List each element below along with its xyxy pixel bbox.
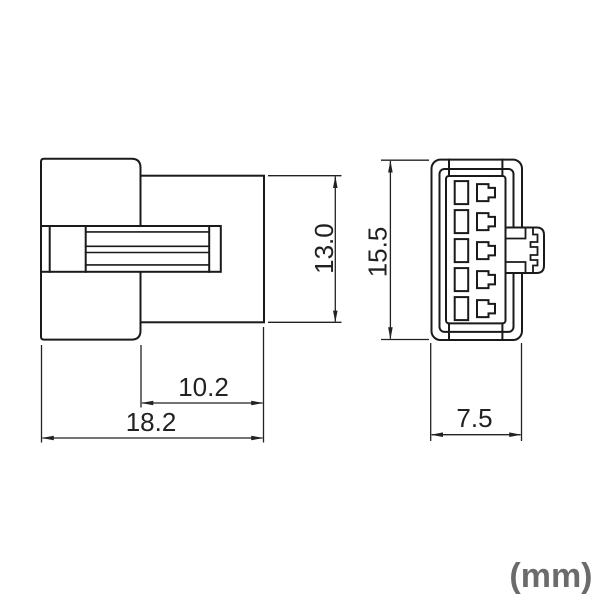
- front view: lock tab bottom arm: [506, 262, 526, 273]
- dim 7.5 extension lines: [430, 343, 432, 441]
- front view: lock tab top arm: [506, 228, 526, 239]
- dim 18.2 line: [43, 437, 263, 439]
- front view: side lock tab outline: [506, 228, 545, 274]
- front view: top rib ticks: [449, 160, 502, 176]
- front view: terminal row 1 right: [477, 184, 495, 201]
- side view: rear housing block: [141, 176, 265, 323]
- side view: lock lever bar: [41, 226, 221, 272]
- front view: terminal row 2 right: [477, 213, 495, 230]
- dimension labels: [126, 223, 593, 595]
- dim 15.5 extension lines: [381, 159, 429, 161]
- front view: terminal slot row 1 left: [455, 181, 469, 204]
- svg-text:15.5: 15.5: [363, 227, 393, 278]
- front view: terminal slot row 3 left: [455, 239, 469, 262]
- dim 18.2 extension line left: [41, 345, 43, 443]
- svg-text:7.5: 7.5: [456, 403, 492, 433]
- dim 10.2 extension line left: [140, 345, 142, 408]
- svg-text:13.0: 13.0: [309, 223, 339, 274]
- svg-text:10.2: 10.2: [178, 372, 229, 402]
- front view: bottom rib ticks: [449, 323, 502, 340]
- dim 18.2/10.2 extension line right: [263, 327, 265, 443]
- front view: terminal slot row 4 left: [455, 268, 469, 291]
- front view: terminal row 5 right: [477, 300, 495, 317]
- front view: inner housing wall: [440, 169, 514, 332]
- dim 7.5 line: [432, 434, 521, 436]
- svg-text:(mm): (mm): [509, 557, 592, 595]
- side view: front housing block (rounded): [41, 159, 141, 340]
- front view: lock tab inner hook profile: [531, 228, 538, 274]
- front view: terminal slot row 2 left: [455, 210, 469, 233]
- front view: terminal row 3 right: [477, 242, 495, 259]
- dim 13.0 extension lines: [268, 175, 342, 177]
- arrowheads dim 10.2: [141, 401, 153, 406]
- arrowheads dim 7.5: [431, 432, 443, 437]
- front view: terminal row 4 right: [477, 271, 495, 288]
- arrowheads dim 18.2: [42, 436, 54, 441]
- front view: terminal slot row 5 left: [455, 297, 469, 320]
- svg-text:18.2: 18.2: [126, 407, 177, 437]
- dimension graphics: [42, 160, 522, 442]
- front view: cavity block: [446, 176, 506, 323]
- front view: outer housing outline: [432, 160, 523, 340]
- dim 15.5 line: [389, 161, 391, 339]
- dim 10.2 line: [142, 402, 263, 404]
- arrowheads dim 15.5: [388, 160, 393, 172]
- dim 13.0 line: [334, 177, 336, 322]
- arrowheads dim 13.0: [333, 176, 338, 188]
